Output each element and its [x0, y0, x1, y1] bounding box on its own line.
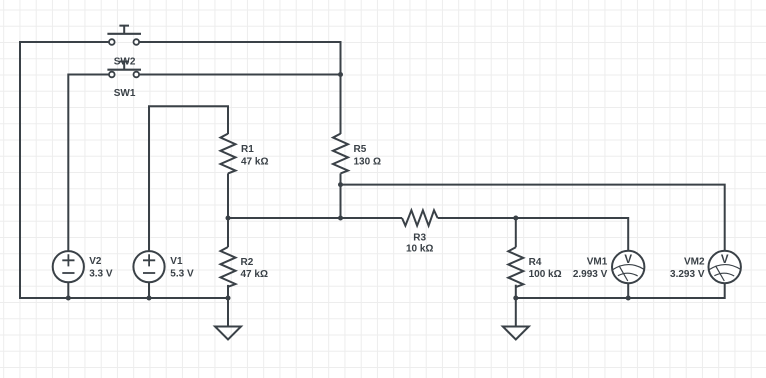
label V2 value 3.3 V [89, 256, 113, 280]
junction node: R1/R2 middle bus [226, 216, 231, 221]
voltmeter VM2 [709, 251, 741, 283]
voltage source V1 [133, 251, 164, 282]
junction node: R5 at middle bus [338, 216, 343, 221]
svg-text:R1: R1 [241, 144, 254, 155]
wire: R3 right to R4 node and on to VM1 top [438, 218, 629, 251]
ground symbol at R2 / sources net [215, 298, 241, 340]
svg-text:V2: V2 [89, 256, 102, 267]
svg-text:R5: R5 [354, 144, 367, 155]
resistor R5 [333, 134, 348, 174]
label R1 value 47 kOhm [241, 144, 268, 168]
svg-text:SW2: SW2 [114, 57, 136, 68]
wire: R1 bottom through node to R2 top [227, 173, 229, 247]
svg-text:47 kΩ: 47 kΩ [241, 269, 268, 280]
wire: right ground bus to VM2 bottom [516, 283, 725, 298]
label R3 value 10 kOhm [406, 233, 433, 255]
wire: left loop from SW2 left terminal down to bottom ground bus [20, 42, 228, 298]
junction node: R4 bottom at right ground bus [513, 296, 518, 301]
wire: SW1 right terminal to junction at R5 branch [139, 74, 340, 76]
label SW1 [114, 88, 136, 99]
svg-text:R4: R4 [529, 257, 542, 268]
junction node: R5 bottom to VM2 branch [338, 182, 343, 187]
svg-text:100 kΩ: 100 kΩ [529, 269, 562, 280]
svg-text:V: V [721, 254, 729, 266]
wire: R5 bottom branch across to VM2 top [341, 185, 725, 251]
wire: V2 positive up to SW1 left terminal [68, 75, 109, 252]
label R4 value 100 kOhm [529, 257, 562, 280]
svg-text:5.3 V: 5.3 V [170, 269, 194, 280]
junction node: R4 top at middle bus [513, 216, 518, 221]
svg-text:SW1: SW1 [114, 88, 136, 99]
wire: R5 bottom to middle bus [340, 173, 342, 218]
svg-text:V1: V1 [170, 256, 183, 267]
resistor R4 [508, 247, 523, 287]
wire: V1 negative to ground bus [148, 282, 150, 298]
svg-text:R3: R3 [413, 233, 426, 244]
voltage source V2 [53, 251, 84, 282]
label VM2 value 3.293 V [670, 256, 705, 280]
junction node: V1 negative at ground bus [147, 296, 152, 301]
switch SW2 pushbutton [107, 26, 141, 45]
svg-text:3.293 V: 3.293 V [670, 269, 705, 280]
label VM1 value 2.993 V [573, 256, 608, 280]
svg-text:3.3 V: 3.3 V [89, 269, 113, 280]
wire: R2 bottom to ground bus [227, 285, 229, 298]
junction node: R2 bottom at ground [226, 296, 231, 301]
svg-text:130 Ω: 130 Ω [354, 157, 381, 168]
wire: R4 bottom to right ground bus [515, 285, 517, 298]
junction node: VM1 bottom at right ground bus [626, 296, 631, 301]
svg-text:R2: R2 [241, 257, 254, 268]
label SW2 [114, 57, 136, 68]
junction node: SW1 right at R5 branch [338, 72, 343, 77]
wire: VM1 bottom to right ground bus [627, 283, 629, 298]
voltmeter VM1 V glyph [624, 254, 632, 266]
ground symbol at R4 net [503, 298, 529, 340]
svg-text:10 kΩ: 10 kΩ [406, 243, 433, 254]
svg-text:VM1: VM1 [587, 256, 608, 267]
voltmeter VM2 V glyph [721, 254, 729, 266]
wire: V2 negative to ground bus [67, 282, 69, 298]
wire: R4 top lead [515, 218, 517, 247]
junction node: V2 negative at ground bus [66, 296, 71, 301]
svg-text:2.993 V: 2.993 V [573, 269, 608, 280]
wire: middle bus from R1/R2 node to R3 left [228, 217, 402, 219]
wire: SW2 right terminal to R5 top vertical [139, 42, 340, 134]
voltmeter VM1 [612, 251, 644, 283]
resistor R3 [402, 210, 438, 225]
wire: V1 positive up and over to R1 top [149, 106, 228, 251]
label V1 value 5.3 V [170, 256, 194, 280]
label R5 value 130 Ohm [354, 144, 381, 168]
resistor R1 [221, 134, 236, 174]
switch SW1 pushbutton [107, 62, 141, 78]
svg-text:VM2: VM2 [684, 256, 705, 267]
svg-text:V: V [624, 254, 632, 266]
resistor R2 [221, 247, 236, 287]
svg-text:47 kΩ: 47 kΩ [241, 157, 268, 168]
label R2 value 47 kOhm [241, 257, 268, 280]
